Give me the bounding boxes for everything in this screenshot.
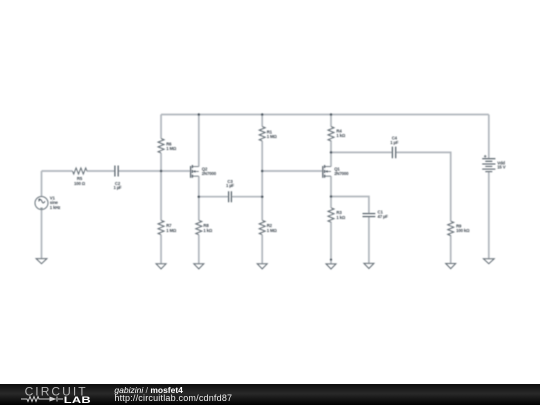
wire battery bottom	[488, 172, 490, 259]
transistor Q1 stubs	[325, 167, 331, 177]
ground (R2)	[257, 264, 267, 269]
ground (R7)	[156, 264, 166, 269]
svg-text:1 µF: 1 µF	[390, 140, 399, 145]
wire R8 bottom lead	[198, 235, 200, 264]
node C3 / R2	[261, 195, 264, 198]
svg-text:1 MΩ: 1 MΩ	[267, 134, 278, 139]
transistor Q2 gate bar	[190, 166, 192, 178]
wire C2 to Q2 gate	[118, 170, 190, 172]
logo CIRCUIT	[25, 385, 88, 399]
svg-text:LAB: LAB	[64, 396, 91, 405]
footer url	[114, 393, 232, 403]
resistor R7	[158, 220, 164, 234]
ground (R8)	[194, 264, 204, 269]
wire Q2 source to C3	[199, 196, 229, 198]
battery plus sign	[484, 155, 487, 158]
svg-text:100 Ω: 100 Ω	[74, 181, 86, 186]
node top rail / R4	[330, 113, 333, 116]
capacitor C1 plates	[363, 214, 376, 217]
capacitor C2 plates	[115, 166, 118, 177]
node Q1 source / R3 / C1	[330, 195, 333, 198]
wire V1 to R5	[42, 170, 73, 172]
logo LAB	[64, 396, 91, 405]
transistor Q1 gate bar	[322, 166, 324, 178]
wire R1 node down to C3 node	[261, 171, 263, 197]
svg-text:2N7000: 2N7000	[202, 171, 217, 176]
logo wire	[21, 397, 63, 402]
wire C3 to R2 node	[231, 196, 262, 198]
resistor R4	[328, 127, 334, 141]
resistor R2	[259, 220, 265, 234]
svg-text:100 kΩ: 100 kΩ	[456, 228, 470, 233]
svg-text:1 kΩ: 1 kΩ	[336, 215, 346, 220]
wire drain node to C4	[331, 151, 392, 153]
resistor R5	[73, 168, 87, 174]
plain wires (light)	[42, 115, 489, 264]
wire R2 top lead	[261, 197, 263, 221]
resistor R6	[158, 139, 164, 153]
mid-tone component outlines	[35, 127, 494, 270]
svg-text:1 MΩ: 1 MΩ	[267, 228, 278, 233]
wire Q2 drain	[198, 115, 200, 167]
wire Q1 source node to C1	[331, 197, 369, 214]
ground (R3)	[326, 264, 336, 269]
transistor Q1 channel segments	[324, 165, 326, 178]
svg-text:2N7000: 2N7000	[334, 171, 349, 176]
wire R4 bottom lead / Q1 drain	[330, 141, 332, 167]
svg-text:47 µF: 47 µF	[378, 214, 389, 219]
node R3 ground	[330, 259, 332, 261]
wire R1 top lead	[261, 115, 263, 127]
ground (Vdd)	[483, 259, 494, 264]
node Q2 source / R8 / C3	[198, 195, 201, 198]
footer bar	[0, 384, 540, 405]
wire Q1 source	[330, 176, 332, 196]
voltage source V1 sine symbol	[39, 200, 45, 203]
transistor Q2 stubs	[192, 167, 198, 177]
dark component accents	[38, 147, 496, 217]
wire R9 bottom lead	[450, 235, 452, 263]
svg-text:1 kΩ: 1 kΩ	[203, 228, 213, 233]
svg-text:15 V: 15 V	[497, 165, 506, 170]
svg-text:1 kΩ: 1 kΩ	[336, 133, 346, 138]
transistor Q1 body arrow	[325, 170, 328, 172]
wire R3 top lead	[330, 197, 332, 208]
wire R7 bottom lead	[160, 235, 162, 264]
svg-text:1 µF: 1 µF	[113, 185, 122, 190]
wire R3 bottom lead	[330, 222, 332, 264]
voltage source V1 circle	[35, 197, 48, 210]
wire Q2 source	[198, 176, 200, 197]
node Q1 drain / C4	[330, 151, 333, 154]
svg-text:1 MΩ: 1 MΩ	[166, 146, 177, 151]
wire R5 to C2	[87, 170, 115, 172]
wire V1 bottom stem	[41, 210, 43, 259]
capacitor C3 plates	[229, 191, 232, 202]
transistor Q2 channel segments	[191, 165, 193, 178]
wire V1 top stem	[41, 171, 43, 197]
wire R1 bottom lead	[261, 141, 263, 171]
resistor R1	[259, 127, 265, 141]
svg-text:1 kHz: 1 kHz	[50, 205, 60, 210]
node top rail / R1	[261, 113, 264, 116]
ground (R9)	[446, 264, 456, 269]
node R1 R2 / Q1 gate	[261, 170, 264, 173]
wire R4 top lead	[330, 115, 332, 127]
wire C4 to R9	[396, 152, 451, 221]
wire C1 bottom	[368, 217, 370, 264]
transistor Q2 body arrow	[193, 170, 196, 172]
battery Vdd plates	[482, 159, 495, 172]
node top rail / Q2 drain	[198, 113, 201, 116]
wire R6 top lead	[160, 115, 162, 139]
svg-text:http://circuitlab.com/cdnfd87: http://circuitlab.com/cdnfd87	[114, 393, 232, 403]
capacitor C4 plates	[392, 147, 395, 159]
wire R7 top lead	[160, 171, 162, 220]
wire battery top	[488, 115, 490, 159]
wire top rail	[161, 114, 489, 116]
wire R2 bottom lead	[261, 235, 263, 264]
resistor R8	[196, 220, 202, 234]
wire R8 top lead	[198, 197, 200, 221]
logo diode	[50, 397, 57, 402]
svg-text:1 µF: 1 µF	[226, 183, 235, 188]
ground (C1)	[364, 263, 374, 268]
footer title	[114, 385, 183, 395]
node input / R6 R7	[160, 170, 163, 173]
resistor R9	[448, 221, 454, 235]
wire R6 bottom lead	[160, 153, 162, 171]
wire gate line to Q1	[262, 170, 322, 172]
ground (V1)	[36, 259, 47, 264]
svg-text:1 MΩ: 1 MΩ	[166, 228, 177, 233]
resistor R3	[328, 208, 334, 222]
